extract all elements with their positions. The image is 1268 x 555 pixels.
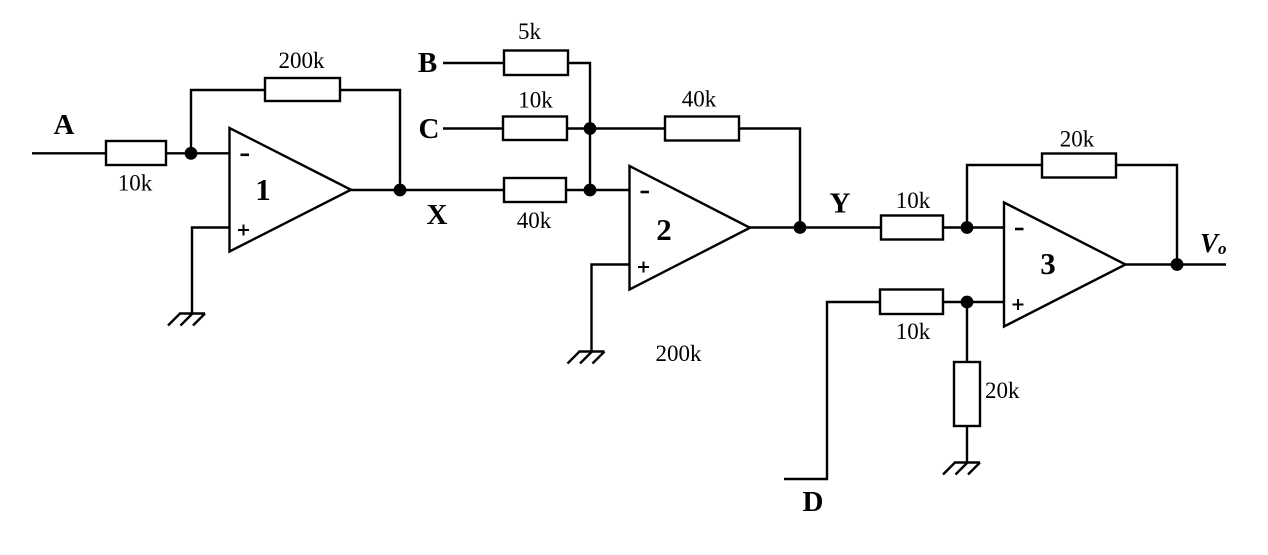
svg-text:200k: 200k (279, 48, 326, 73)
svg-text:200k: 200k (656, 341, 703, 366)
svg-text:20k: 20k (1060, 127, 1095, 152)
svg-text:Y: Y (830, 188, 851, 220)
svg-text:20k: 20k (985, 378, 1020, 403)
svg-text:1: 1 (255, 172, 271, 207)
svg-text:10k: 10k (518, 88, 553, 113)
svg-text:40k: 40k (517, 208, 552, 233)
svg-text:C: C (419, 113, 440, 145)
svg-text:B: B (418, 47, 437, 79)
svg-text:D: D (803, 486, 824, 518)
svg-text:10k: 10k (118, 171, 153, 196)
svg-text:10k: 10k (896, 188, 931, 213)
svg-text:3: 3 (1040, 246, 1056, 281)
svg-text:5k: 5k (518, 19, 542, 44)
svg-text:A: A (54, 109, 75, 141)
svg-text:10k: 10k (896, 319, 931, 344)
svg-text:X: X (427, 199, 448, 231)
svg-text:2: 2 (656, 212, 672, 247)
svg-text:40k: 40k (682, 87, 717, 112)
